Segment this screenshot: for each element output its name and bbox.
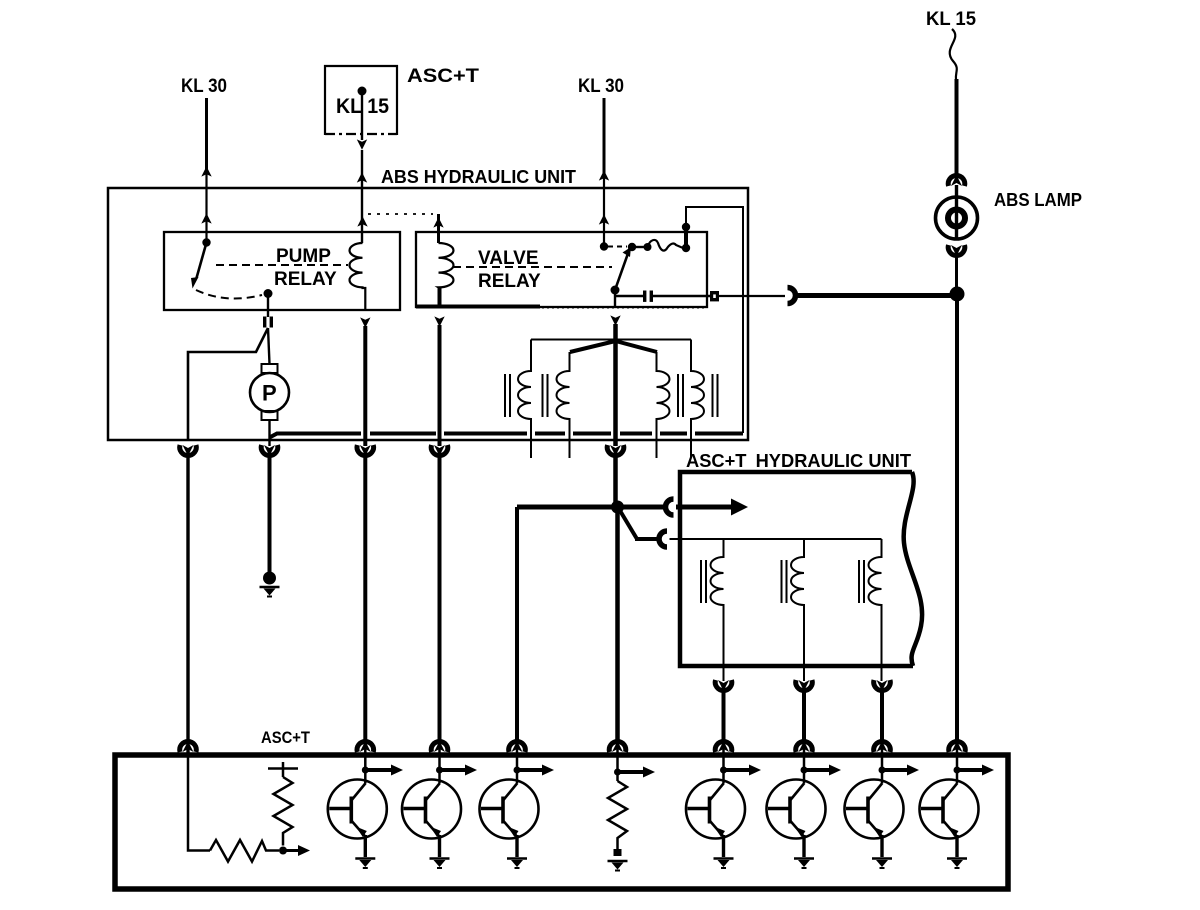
pump relay switch arm [197, 243, 207, 279]
connector below ABS box x440 [431, 445, 448, 456]
connector at controller x724 [715, 741, 732, 752]
connector at controller x804 [796, 741, 813, 752]
thick wire to lamp junction [796, 293, 953, 298]
resistor horizontal [210, 840, 279, 862]
main feed continues down [615, 507, 620, 741]
transistor Q7 [920, 747, 995, 868]
pump relay switch pivot dot [202, 238, 210, 246]
connector above lamp [948, 175, 965, 186]
valve switch arm [615, 252, 629, 290]
stub up from contact c [684, 227, 688, 248]
pump relay dashed actuation line [216, 264, 348, 266]
connector at controller x883 [874, 741, 891, 752]
connector socket into ASC+T unit [666, 499, 674, 515]
valve switch dashed gap [608, 246, 627, 248]
transistor Q6 [845, 747, 920, 868]
valve switch arm arrowhead [623, 247, 632, 257]
connector at controller x440 [431, 741, 448, 752]
arrow wire into ASC+T unit [676, 505, 734, 510]
valve relay coil output (thick) [438, 288, 442, 307]
svg-text:KL 15: KL 15 [926, 9, 976, 30]
pump relay coil [349, 243, 365, 310]
pump relay coil output wire (thick) [363, 326, 367, 446]
transistor Q5 [767, 747, 842, 868]
pull-up resistor vertical [268, 762, 298, 846]
connector socket solenoid bus [659, 531, 667, 547]
valve relay box [416, 232, 707, 307]
coil 2 core bars [543, 374, 548, 417]
arrow down below valve switch [610, 315, 620, 325]
ASC+T coil 1 [711, 539, 724, 681]
valve switch contact link [632, 246, 646, 248]
arrow down below KL15 box [357, 139, 367, 149]
junction dot main feed [611, 501, 624, 514]
arrow up above ABS box [357, 172, 367, 182]
thick ground bus along ABS box bottom [270, 434, 744, 438]
ASC+T controller box [115, 755, 1008, 889]
branch diagonal to left drop [188, 328, 268, 440]
wire from contact c to right drop [686, 207, 743, 433]
connector below ASC+T coil 3 [874, 680, 891, 691]
connector below ABS box x616 [607, 445, 624, 456]
solenoid coil 4 [691, 340, 704, 459]
wire from junction to ASC+T connector [618, 505, 667, 510]
svg-text:ASC+T: ASC+T [261, 728, 311, 747]
coil 4 core bars [713, 374, 718, 417]
pump relay dashed contact curve [196, 290, 262, 299]
pump motor ground [260, 587, 280, 597]
connector at controller x366 [357, 741, 374, 752]
dashed link KL15 wire to valve coil [368, 213, 433, 215]
thick diagonal to coil 2 [570, 341, 616, 352]
solenoid bus inside ASC+T unit [670, 538, 882, 540]
connector below ASC+T coil 1 [715, 680, 732, 691]
valve switch contact dot c [682, 244, 690, 252]
valve switch down output [614, 290, 616, 308]
transistor Q2 [402, 747, 477, 868]
connector below ABS box x270 (pump motor) [261, 445, 278, 456]
wire x616 down to junction [613, 456, 618, 507]
connector below ABS box x188 [180, 445, 197, 456]
svg-text:RELAY: RELAY [478, 271, 541, 292]
inline connector block [710, 291, 719, 301]
pump motor feed [268, 328, 270, 364]
connector below lamp [948, 245, 965, 256]
connector at controller x958 [949, 741, 966, 752]
ASC+T coil 1 core bars [701, 560, 706, 603]
arrow up above pump relay coil [357, 216, 367, 226]
coil 3 core bars [678, 374, 683, 417]
pump switch output dot [264, 289, 273, 298]
svg-text:ABS LAMP: ABS LAMP [994, 190, 1082, 210]
ABS lamp [936, 197, 978, 239]
drop wire x517 [515, 507, 519, 741]
diagonal branch to solenoid bus [619, 509, 637, 539]
svg-text:P: P [262, 381, 277, 406]
svg-text:ASC+T: ASC+T [407, 66, 479, 87]
wire x188 down to ASC+T box [186, 456, 189, 756]
valve relay box bottom thick segment [416, 305, 540, 309]
thick diagonal to coil 3 [616, 341, 658, 352]
ABS hydraulic unit box [108, 188, 748, 440]
input resistor network wire [188, 747, 210, 851]
solenoid coil 2 [557, 352, 570, 458]
svg-text:RELAY: RELAY [274, 269, 337, 290]
squiggle wire below KL15 label [950, 29, 957, 80]
arrow right from resistor node [283, 849, 299, 852]
svg-text:KL 30: KL 30 [578, 76, 624, 97]
transistor Q4 [686, 747, 761, 868]
lamp line down to ASC+T controller [955, 294, 959, 741]
arrow up above valve relay coil [433, 217, 443, 227]
coil 1 core bars [505, 374, 510, 417]
ASC+T coil 2 [791, 539, 804, 681]
wire KL30 middle vertical [603, 98, 606, 174]
arrow on KL30 middle wire (inside box) [599, 214, 609, 224]
pump motor P [250, 364, 289, 420]
thick wire left from junction [517, 505, 618, 510]
transistor Q3 [480, 747, 555, 868]
valve switch contact dot b [644, 243, 652, 251]
solenoid bus thin line [531, 339, 691, 341]
svg-text:ABS HYDRAULIC UNIT: ABS HYDRAULIC UNIT [381, 167, 576, 187]
wire to junction [955, 256, 958, 294]
ASC+T coil 3 core bars [859, 560, 864, 603]
valve relay coil [439, 243, 454, 288]
solenoid coil 3 [657, 352, 670, 458]
valve switch overtravel spring [648, 240, 684, 251]
wire KL30 left vertical [205, 98, 208, 170]
pump motor ground dot [263, 572, 276, 585]
valve switch contact dot a [628, 243, 636, 251]
inline connector bars on pump output [263, 317, 266, 328]
wire into lamp [955, 185, 958, 240]
main valve feed (thick) [613, 340, 618, 446]
pump switch output wire down [267, 294, 269, 318]
connector socket to lamp line [788, 288, 796, 304]
connector below ASC+T coil 2 [796, 680, 813, 691]
valve relay dashed actuation line [453, 266, 612, 268]
arrow on KL30 left wire (inside box) [201, 213, 211, 223]
arrow on KL30 left wire (above box) [201, 166, 211, 176]
solenoid coil 1 [518, 340, 531, 459]
connector below ABS box x366 [357, 445, 374, 456]
wire KL15 vertical [361, 91, 363, 140]
dot at top of stub [682, 223, 690, 231]
transistor Q1 [328, 747, 403, 868]
svg-text:ASC+T HYDRAULIC UNIT: ASC+T HYDRAULIC UNIT [686, 451, 911, 471]
resistor R2 [608, 747, 656, 871]
ASC+T coil 3 [869, 539, 882, 681]
junction dot resistor node [279, 847, 287, 855]
valve switch common dot [611, 286, 620, 295]
pump relay box [164, 232, 400, 310]
pump relay switch arm arrowhead [191, 277, 199, 289]
wire x366 down [363, 456, 367, 741]
svg-text:PUMP: PUMP [276, 246, 331, 267]
connector at controller x617 [609, 741, 626, 752]
pump motor ground wire [268, 456, 272, 572]
valve switch input dot (KL30) [600, 242, 608, 250]
connector at controller x188 [180, 741, 197, 752]
connector at controller x517 [509, 741, 526, 752]
junction dot lamp line [950, 287, 965, 302]
arrow down below pump relay box [360, 317, 370, 327]
valve output wire to right [615, 295, 643, 297]
ASC+T coil 2 core bars [782, 560, 787, 603]
inline connector bars on output [643, 291, 646, 302]
junction dot on KL15 wire [358, 87, 367, 96]
thick wire down to lamp connector [955, 79, 959, 175]
wire x440 down [438, 456, 442, 741]
arrow down below valve relay box [434, 316, 444, 326]
svg-text:KL 30: KL 30 [181, 76, 227, 97]
KL15 box (ASC+T) [325, 66, 397, 135]
svg-text:VALVE: VALVE [478, 248, 539, 269]
pump motor output wire [268, 420, 270, 446]
valve relay coil feed stub [437, 214, 440, 243]
ASC+T hydraulic unit box [680, 472, 913, 666]
arrow on KL30 middle wire (above box) [599, 170, 609, 180]
